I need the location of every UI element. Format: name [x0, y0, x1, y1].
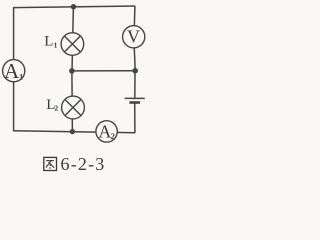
node junction right	[132, 68, 138, 74]
ammeter A1	[3, 59, 25, 83]
svg-text:2: 2	[111, 131, 115, 141]
svg-text:1: 1	[19, 73, 23, 82]
wire top	[13, 6, 135, 8]
svg-text:2: 2	[54, 104, 58, 113]
wire bottom	[13, 131, 135, 133]
svg-text:6-2-3: 6-2-3	[61, 154, 106, 174]
battery	[125, 98, 145, 102]
wire middle	[72, 70, 135, 72]
voltmeter V	[123, 26, 145, 48]
ammeter A2	[96, 121, 117, 142]
svg-text:A: A	[4, 59, 20, 83]
lamp L2	[62, 96, 85, 119]
wire left	[13, 7, 15, 131]
wire right	[134, 6, 136, 71]
svg-text:1: 1	[54, 41, 58, 50]
lamp L1	[61, 33, 84, 56]
svg-text:V: V	[127, 27, 140, 47]
label L2	[46, 97, 58, 113]
node junction middle	[69, 68, 75, 74]
svg-text:A: A	[98, 121, 111, 141]
label L1	[44, 33, 57, 49]
node junction top	[71, 4, 76, 9]
wire battery branch	[134, 71, 136, 133]
wire lamp branch L1	[72, 7, 73, 72]
wire lamp branch L2	[71, 71, 74, 132]
caption 图 6-2-3	[44, 154, 106, 174]
svg-text:L: L	[44, 33, 53, 49]
node junction bottom	[70, 129, 75, 134]
